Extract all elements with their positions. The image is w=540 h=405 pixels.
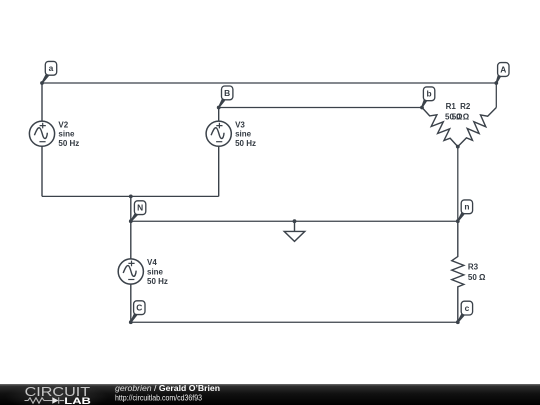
node label C (130, 301, 145, 323)
svg-text:a: a (49, 63, 54, 73)
svg-text:b: b (427, 89, 432, 99)
resistor R1 (422, 108, 458, 147)
svg-text:B: B (224, 88, 230, 98)
junction dot A (494, 81, 498, 85)
svg-text:50 Ω: 50 Ω (468, 273, 486, 282)
wire a to A (42, 82, 496, 84)
svg-text:50 Hz: 50 Hz (58, 139, 79, 148)
svg-text:sine: sine (235, 130, 252, 139)
junction dot B (217, 106, 221, 110)
wire N riser (130, 196, 132, 221)
svg-text:c: c (465, 303, 470, 313)
voltage source V2 (29, 121, 54, 146)
junction dot c (456, 320, 460, 324)
svg-text:V4: V4 (147, 258, 157, 267)
junction dot b (420, 106, 424, 110)
wire V2 top lead (41, 83, 43, 121)
node label n (457, 200, 472, 222)
wire V4 bottom lead (130, 284, 132, 322)
svg-text:50 Ω: 50 Ω (452, 112, 470, 121)
wire apex to n (457, 147, 459, 222)
svg-text:LAB: LAB (64, 396, 91, 405)
voltage source V3 (206, 121, 231, 146)
footer logo squiggle and diode (25, 397, 65, 403)
svg-text:http://circuitlab.com/cd36f93: http://circuitlab.com/cd36f93 (115, 393, 202, 403)
svg-text:V2: V2 (58, 120, 68, 129)
wire N to n (131, 220, 458, 222)
svg-text:50 Hz: 50 Hz (235, 139, 256, 148)
wire V3 top lead (218, 108, 220, 122)
wire V4 top lead (130, 221, 132, 259)
wire C to c (131, 321, 458, 323)
junction dot a (40, 81, 44, 85)
junction dot apex (456, 145, 460, 149)
svg-text:R3: R3 (468, 263, 479, 272)
footer logo diode triangle (52, 397, 58, 404)
junction dot N (129, 219, 133, 223)
svg-text:n: n (464, 202, 469, 212)
svg-text:R1: R1 (446, 102, 457, 111)
node label b (421, 87, 435, 108)
svg-text:gerobrien / Gerald O’Brien: gerobrien / Gerald O’Brien (115, 383, 220, 393)
ground (284, 221, 305, 241)
wire V2 bottom lead (41, 146, 43, 196)
node label B (218, 86, 233, 108)
node label c (457, 301, 472, 322)
wire B to b (219, 107, 422, 109)
node label a (41, 61, 56, 83)
junction dot ground (293, 219, 297, 223)
node label N (130, 201, 146, 222)
resistor R3 (452, 221, 464, 322)
resistor R2 (458, 108, 497, 147)
voltage source V4 (118, 259, 143, 284)
svg-text:N: N (137, 203, 143, 213)
junction dot N-upper (129, 195, 133, 199)
svg-text:sine: sine (58, 130, 75, 139)
svg-text:A: A (500, 64, 506, 74)
wire A down (495, 83, 497, 108)
svg-text:50 Hz: 50 Hz (147, 277, 168, 286)
footer bar (0, 384, 540, 405)
wire V2 to V3 bottom (42, 195, 219, 197)
node label A (496, 63, 509, 84)
junction dot n (456, 219, 460, 223)
svg-text:V3: V3 (235, 120, 245, 129)
svg-text:sine: sine (147, 268, 164, 277)
svg-text:R2: R2 (460, 102, 471, 111)
wire V3 bottom lead (218, 146, 220, 196)
junction dot C (129, 320, 133, 324)
svg-text:C: C (136, 303, 142, 313)
